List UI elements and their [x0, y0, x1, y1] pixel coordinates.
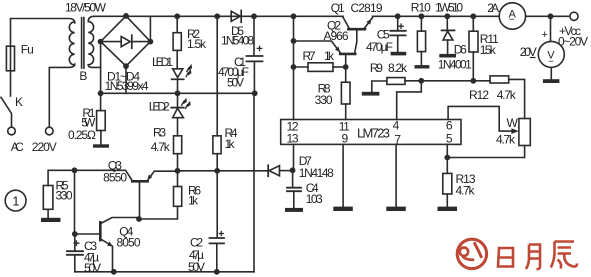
- IC LM723: [281, 120, 461, 145]
- node R3 bottom: [175, 168, 181, 174]
- wire R7 left: [294, 66, 309, 68]
- wire C3 node to Q4 base: [75, 233, 100, 235]
- voltmeter V 20V: [538, 41, 564, 67]
- wire R5 bottom: [47, 209, 49, 218]
- wire top rail from bridge to Q1 collector: [126, 15, 343, 17]
- bridge inner diode: [104, 41, 147, 43]
- resistor R4: [213, 136, 221, 154]
- resistor R13: [446, 158, 448, 174]
- svg-text:1W510: 1W510: [435, 1, 463, 15]
- bridge rectifier D1~D4 diamond: [101, 16, 151, 66]
- wire vertical x293 rail to LM723 pin12: [293, 16, 295, 119]
- svg-text:50V: 50V: [84, 261, 101, 275]
- wire R4 node to C2: [216, 171, 218, 238]
- wire emitter line y171 from Q3 to D7: [178, 170, 269, 172]
- logo text ri (sun): [498, 248, 513, 267]
- svg-text:330: 330: [56, 189, 73, 203]
- resistor R9: [387, 78, 405, 85]
- node Q2 emitter branch: [291, 38, 297, 44]
- node voltmeter tap: [548, 13, 554, 19]
- node R4 bottom: [214, 168, 220, 174]
- capacitor C3: [74, 234, 76, 251]
- logo text yue (moon): [526, 245, 540, 270]
- ground below D6: [439, 54, 456, 58]
- node C5 top: [395, 13, 401, 19]
- wire pot wiper from pin6: [448, 106, 513, 131]
- ground below C5: [391, 52, 407, 56]
- wire C3 bottom to rail: [74, 255, 76, 272]
- svg-text:1k: 1k: [225, 137, 236, 151]
- svg-text:0~20V: 0~20V: [558, 34, 588, 48]
- transistor Q3 8550: [132, 180, 147, 183]
- wire LED1 to node: [177, 80, 179, 94]
- resistor R2: [173, 33, 181, 51]
- svg-text:R7: R7: [303, 49, 316, 63]
- diode D7: [267, 165, 269, 176]
- svg-text:220V: 220V: [32, 140, 57, 154]
- wire C1 node down to bottom rail: [253, 93, 255, 271]
- svg-text:LED1: LED1: [152, 55, 173, 69]
- svg-text:2A: 2A: [487, 1, 499, 15]
- svg-text:+: +: [542, 29, 548, 41]
- wire top rail right section: [373, 15, 500, 17]
- svg-text:1k: 1k: [324, 49, 335, 63]
- svg-text:8050: 8050: [117, 235, 141, 249]
- wire R4 bottom: [216, 154, 218, 171]
- transistor Q1 C2819: [348, 28, 365, 31]
- ground below C4: [285, 208, 303, 212]
- node Q3-Q4 collector: [136, 216, 142, 222]
- wire 220V terminal to primary bottom: [49, 64, 74, 127]
- resistor R6: [174, 187, 182, 207]
- svg-text:470µF: 470µF: [366, 40, 393, 54]
- resistor R7: [308, 63, 333, 72]
- svg-text:R12: R12: [469, 88, 489, 102]
- svg-text:−: −: [509, 15, 515, 26]
- LED2: [177, 93, 179, 107]
- capacitor C5: [397, 16, 399, 30]
- resistor R3: [174, 136, 182, 154]
- svg-text:1N5399x4: 1N5399x4: [105, 79, 149, 93]
- wire voltmeter drop: [550, 16, 552, 41]
- logo text chen: [551, 242, 577, 269]
- node D6 top: [444, 13, 450, 19]
- svg-text:9: 9: [342, 132, 349, 146]
- transistor Q2 A966: [340, 53, 355, 56]
- svg-text:C2819: C2819: [351, 1, 383, 15]
- transformer core: [82, 18, 84, 69]
- resistor R1: [97, 111, 106, 131]
- diode D5: [231, 11, 240, 21]
- wire R2 top: [176, 16, 178, 32]
- node Q4 emitter bottom rail: [111, 269, 117, 275]
- node rail pin12 branch: [291, 13, 297, 19]
- svg-text:4.7k: 4.7k: [151, 140, 171, 154]
- resistor R8: [341, 82, 350, 104]
- ammeter A 2A: [499, 3, 525, 29]
- svg-text:330: 330: [315, 93, 333, 107]
- wire R8 bottom to pin11: [345, 104, 347, 120]
- svg-text:50V: 50V: [188, 260, 205, 274]
- ground left of R9: [362, 92, 380, 96]
- svg-text:103: 103: [306, 192, 323, 206]
- wire pin9 to ground: [342, 144, 344, 206]
- wire R7 right to Q2 base vertical: [333, 66, 346, 68]
- terminal AC right: [46, 127, 54, 135]
- svg-text:1N4001: 1N4001: [438, 58, 472, 72]
- potentiometer W: [519, 119, 530, 146]
- node R10 top: [419, 13, 425, 19]
- capacitor C4: [292, 170, 294, 187]
- svg-text:1N4148: 1N4148: [299, 166, 334, 180]
- wire C1 top: [253, 16, 255, 56]
- wire R6 bottom to Q3 collector node: [139, 206, 178, 219]
- svg-text:6: 6: [446, 118, 453, 132]
- wire pot bottom to pin5 node: [447, 146, 524, 158]
- node R11 top: [470, 13, 476, 19]
- resistor R11: [472, 16, 474, 31]
- wire R3 bottom: [177, 154, 179, 171]
- wire R3 node to R6: [177, 171, 179, 187]
- svg-text:0.25Ω: 0.25Ω: [68, 128, 96, 142]
- svg-text:Fu: Fu: [21, 43, 34, 57]
- svg-text:1N5408: 1N5408: [221, 33, 254, 47]
- diode D6: [446, 16, 448, 30]
- wire R9 left to ground: [372, 81, 387, 92]
- wire bridge bottom vertex down to minus line: [125, 66, 127, 93]
- svg-text:K: K: [15, 95, 23, 109]
- wire minus line y93: [101, 92, 255, 94]
- svg-text:4.7k: 4.7k: [497, 88, 517, 102]
- svg-text:A966: A966: [324, 29, 349, 43]
- wire pin7 to ground: [395, 144, 397, 206]
- svg-text:1.5k: 1.5k: [187, 37, 207, 51]
- svg-text:5: 5: [446, 132, 453, 146]
- ground below R10: [415, 65, 430, 68]
- wire bridge left vertex down to R1 node: [100, 42, 102, 94]
- wire fuse to switch: [10, 71, 12, 96]
- wire C1 bottom: [253, 61, 255, 93]
- node R7 left: [291, 64, 297, 70]
- wire R1 top: [100, 93, 102, 110]
- wire R2 to LED1: [176, 50, 178, 68]
- node pin5 R13: [444, 155, 450, 161]
- node R11 bottom: [470, 78, 476, 84]
- svg-text:4.7k: 4.7k: [456, 183, 476, 197]
- svg-text:8550: 8550: [103, 171, 127, 185]
- wire pin13 down: [293, 144, 295, 170]
- transformer secondary winding: [88, 16, 100, 67]
- LED1: [173, 69, 183, 78]
- fuse Fu: [6, 46, 14, 71]
- wire rail ammeter to terminal: [526, 15, 570, 17]
- wire branch down to C3 node: [74, 170, 76, 234]
- svg-text:4.7k: 4.7k: [496, 132, 516, 146]
- svg-text:W: W: [507, 116, 519, 130]
- ground below R13: [438, 207, 458, 211]
- node D5 anode rail: [214, 13, 220, 19]
- svg-text:LM723: LM723: [357, 125, 390, 140]
- ground below pin9: [333, 207, 353, 211]
- ground below pin7: [386, 207, 406, 211]
- node base line branch: [72, 167, 78, 173]
- node bridge top vertex: [123, 13, 129, 19]
- svg-text:R10: R10: [411, 1, 431, 15]
- ground below voltmeter: [543, 79, 560, 83]
- resistor R10: [420, 16, 422, 31]
- svg-text:15k: 15k: [480, 43, 497, 57]
- node pin4 branch: [418, 78, 424, 84]
- wire R1 bottom: [100, 131, 102, 145]
- svg-text:R9: R9: [370, 61, 383, 75]
- node C1 top: [251, 13, 257, 19]
- svg-text:−: −: [548, 57, 554, 68]
- wire R5 node line to Q3 base: [48, 170, 132, 185]
- wire secondary top to bridge top vertex: [94, 15, 127, 17]
- node C1 bottom: [252, 90, 258, 96]
- terminal AC left: [8, 127, 16, 135]
- node bridge right vertex: [148, 39, 154, 45]
- wire pin5 down: [446, 144, 448, 157]
- wire bottom rail: [75, 271, 254, 273]
- svg-text:R3: R3: [153, 126, 166, 140]
- svg-text:50V: 50V: [227, 76, 244, 90]
- node R1 top: [98, 90, 104, 96]
- svg-text:Q1: Q1: [331, 1, 345, 15]
- svg-text:20V: 20V: [520, 45, 537, 59]
- transistor Q4 8050: [99, 222, 102, 240]
- svg-text:13: 13: [287, 132, 299, 146]
- svg-text:7: 7: [394, 132, 401, 146]
- wire R4 top: [216, 16, 218, 136]
- circled 1: [5, 190, 26, 211]
- transformer T primary winding: [69, 22, 74, 65]
- resistor R5: [43, 186, 53, 210]
- svg-text:8.2k: 8.2k: [388, 61, 408, 75]
- wire Q2 emitter line: [294, 41, 341, 53]
- node Q2 base R8: [343, 64, 349, 70]
- wire LED2 to R3: [177, 118, 179, 136]
- svg-text:4: 4: [393, 118, 400, 132]
- node pin13 junction: [290, 167, 296, 173]
- node LED junction: [175, 90, 181, 96]
- terminal +Vcc: [570, 12, 578, 20]
- capacitor C2: [210, 238, 225, 243]
- wire R9 right along y81: [405, 80, 490, 82]
- svg-text:D6: D6: [454, 43, 467, 57]
- svg-text:18V/50W: 18V/50W: [65, 1, 107, 15]
- ground below R1: [93, 144, 109, 147]
- node C3 top: [72, 231, 78, 237]
- wire AC top from fuse to primary: [11, 19, 75, 47]
- node bridge bottom vertex: [123, 63, 129, 69]
- svg-text:AC: AC: [11, 140, 24, 154]
- wire R12 right to pot top: [509, 79, 525, 118]
- node bridge left vertex: [98, 39, 104, 45]
- capacitor C1: [247, 56, 263, 61]
- svg-text:LED2: LED2: [149, 100, 170, 114]
- resistor R12: [490, 76, 509, 83]
- node C2 bottom: [214, 269, 220, 275]
- wire C2 bottom: [216, 243, 218, 271]
- node R2 top: [174, 13, 180, 19]
- switch K: [1, 97, 12, 127]
- logo icon circle: [457, 239, 486, 268]
- ground below R5: [41, 218, 61, 222]
- wire bridge right vertex to top rail: [149, 16, 151, 41]
- wire pin4 branch: [397, 81, 422, 120]
- svg-text:1k: 1k: [188, 194, 199, 208]
- svg-text:B: B: [79, 69, 87, 83]
- svg-text:1: 1: [12, 194, 19, 209]
